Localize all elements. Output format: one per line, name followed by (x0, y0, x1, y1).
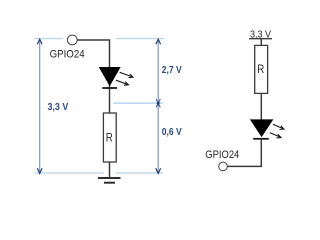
LED D1 light arrow 2 (116, 80, 128, 85)
wire resistor to ground (left circuit) (109, 162, 111, 178)
svg-text:GPIO24: GPIO24 (50, 49, 85, 61)
extension line bottom right part (light blue) (116, 172, 164, 174)
LED D2 (right circuit): triangle (251, 120, 273, 136)
svg-text:3,3 V: 3,3 V (48, 102, 69, 113)
svg-text:GPIO24: GPIO24 (205, 149, 239, 161)
dimension line 2,7 V (right upper segment) (156, 39, 161, 103)
resistor R (left circuit) body (103, 113, 116, 162)
ground symbol (left circuit) (98, 178, 121, 183)
dimension line 0,6 V (right lower segment) (156, 102, 161, 174)
svg-text:0,6 V: 0,6 V (162, 127, 182, 138)
svg-text:2,7 V: 2,7 V (162, 65, 182, 76)
extension line bottom left part (light blue) (35, 172, 105, 174)
extension line top (light blue) (34, 38, 62, 40)
resistor R (right circuit) body (255, 45, 268, 93)
wire resistor to LED (right circuit) (260, 93, 262, 120)
LED D1 light arrow 1 (120, 72, 133, 77)
extension line top right part (light blue) (116, 38, 164, 40)
LED D2 light arrow 2 (270, 133, 281, 138)
dimension line 3,3 V (left, vertical) (37, 39, 42, 173)
extension line middle (light blue) (113, 102, 163, 104)
power rail 3,3 V (right circuit) bar (249, 38, 272, 40)
LED D2 cathode bar (253, 138, 269, 140)
wire from GPIO24 terminal to LED (left circuit, top horizontal + vertical) (77, 40, 109, 113)
LED D1 cathode bar (102, 87, 117, 89)
wire power rail to resistor (right circuit) (260, 39, 262, 46)
svg-text:R: R (106, 133, 113, 145)
wire LED down and left to terminal (right circuit) (227, 139, 261, 167)
LED D1 (left circuit): triangle (100, 68, 120, 86)
terminal GPIO24 (left circuit, open circle) (67, 35, 77, 45)
LED D2 light arrow 1 (273, 124, 284, 129)
svg-text:R: R (257, 64, 264, 76)
terminal GPIO24 (right circuit, open circle) (219, 162, 228, 171)
